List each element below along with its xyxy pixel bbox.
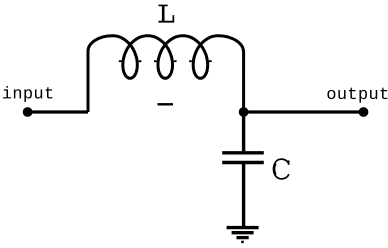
inductor L1 (coil with leads)	[88, 36, 244, 112]
ground bar 1	[227, 226, 259, 229]
wire input dot to inductor left lead	[28, 110, 88, 113]
label C	[274, 159, 290, 179]
node input terminal	[23, 107, 33, 117]
node output terminal	[359, 107, 369, 117]
label input	[3, 86, 52, 102]
capacitor C1 top plate	[222, 151, 264, 154]
node junction	[239, 107, 249, 117]
label output	[327, 88, 387, 103]
ground bar 4	[241, 241, 244, 243]
label L	[159, 5, 175, 23]
ground bar 3	[237, 236, 249, 239]
wire junction to capacitor top plate	[242, 112, 245, 151]
capacitor C1 bottom plate	[222, 161, 264, 164]
wire capacitor bottom plate to ground	[242, 163, 245, 227]
inductor loop side ticks	[119, 60, 212, 62]
wire junction to output dot	[244, 110, 364, 113]
polarity minus mark under inductor	[158, 103, 174, 105]
ground bar 2	[232, 231, 254, 234]
